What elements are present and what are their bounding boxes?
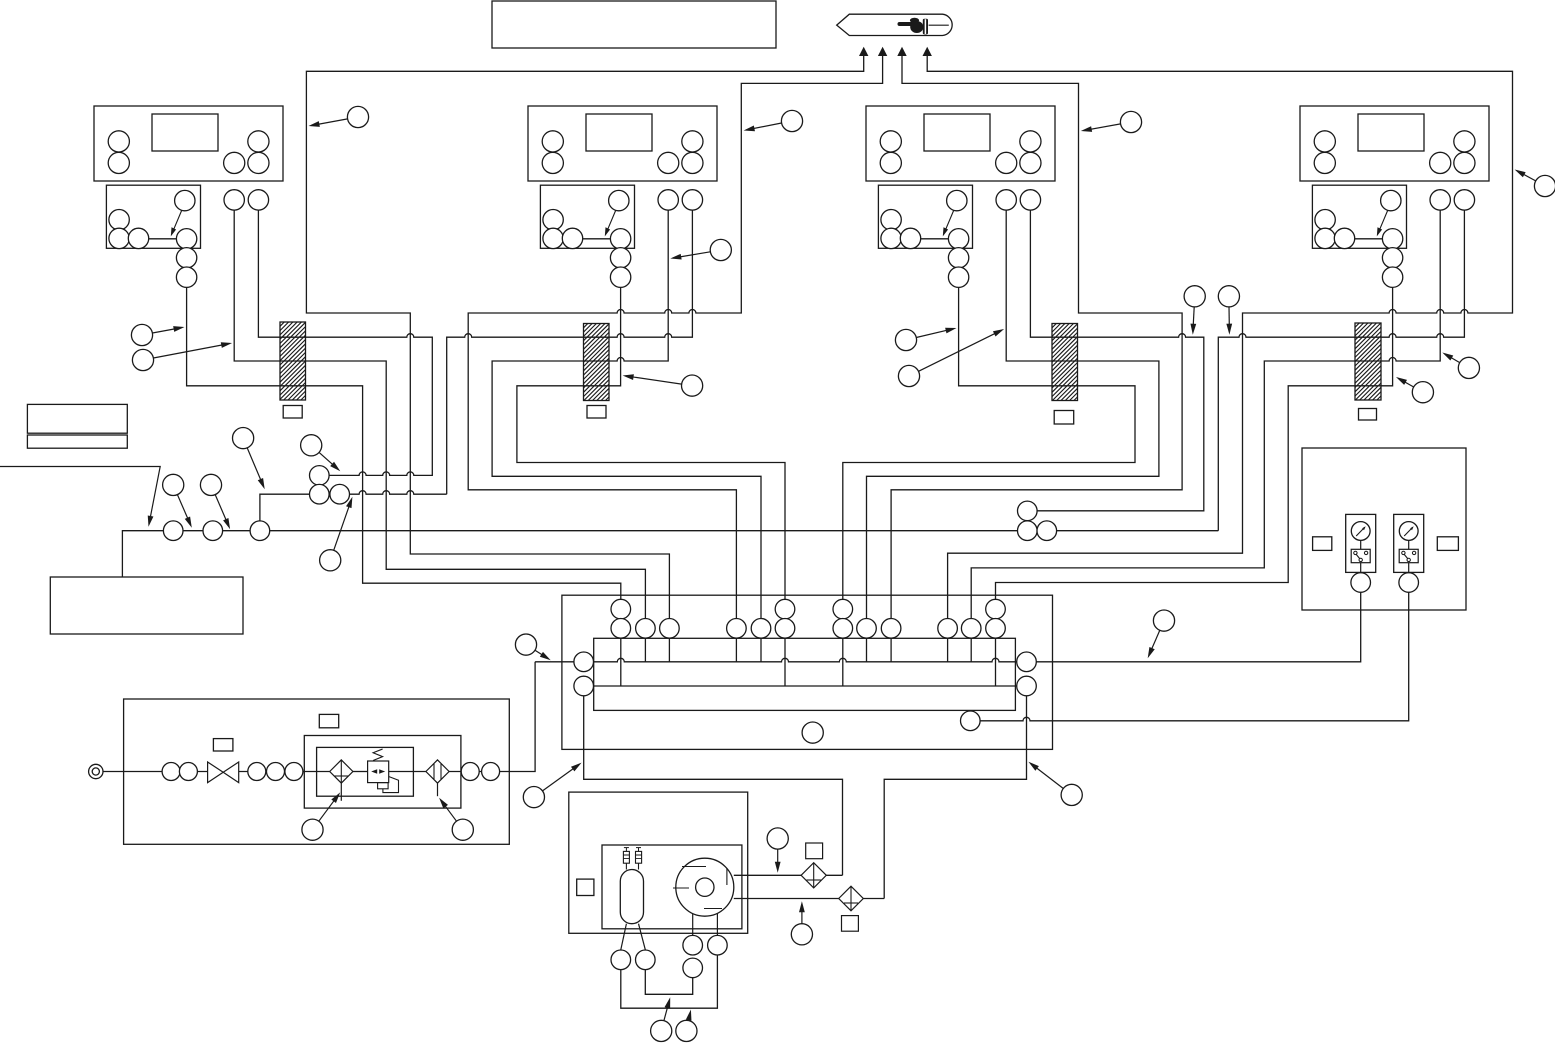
manifold port circles: [611, 599, 631, 619]
callout 20 to air bus entry: [535, 650, 548, 658]
bottle check valve left: [623, 851, 629, 863]
pump vane ticks: [673, 867, 727, 909]
bottom loop outer: [621, 955, 718, 1008]
air filter-regulator inner box: [317, 747, 414, 796]
control head unit 4: [1300, 106, 1489, 287]
air supply pipe segment 1: [103, 771, 208, 773]
control head unit 1: [94, 106, 283, 287]
central distribution inner manifold: [594, 638, 1016, 710]
up arrow 3: [897, 47, 906, 56]
bus A drop 866.5: [866, 638, 868, 662]
gauge box label rect left: [1313, 537, 1332, 551]
callout 11 to water line u3: [1193, 307, 1194, 332]
air supply label rect B: [319, 714, 338, 727]
bulkhead square S3: [1054, 411, 1074, 425]
pump outlet line 2: [734, 898, 839, 900]
callout 1 to bus1: [312, 119, 348, 126]
pressure regulator: [368, 761, 389, 783]
bus A drop 736.4: [735, 638, 737, 662]
pump drop left pair: [692, 914, 694, 936]
callout 22 to bus B right riser: [1031, 764, 1064, 789]
bus A drop 891.1: [890, 638, 892, 662]
water main pipe: [122, 531, 1218, 577]
callout 15 to water main a: [177, 495, 190, 525]
bulkhead square S2: [587, 406, 606, 419]
callout 8 to unit3 mid: [919, 330, 1002, 371]
callout 12 to water line u4: [1228, 307, 1230, 332]
gauge/shutoff box: [1302, 448, 1466, 610]
air supply line fitting circles: [162, 763, 180, 781]
central distribution box: [562, 595, 1053, 749]
distribution fitting circles: [574, 652, 594, 672]
manual shutoff valve (bowtie): [208, 762, 239, 783]
bus B left riser to pump outlet 1: [584, 696, 843, 876]
junction cluster circles left: [310, 466, 330, 486]
floating callout circle in distribution box: [802, 722, 823, 743]
wire bus1 unit1 pilot line: [306, 54, 863, 619]
air filter-regulator mid box: [304, 736, 461, 809]
wire unit1 chain line: [187, 287, 621, 599]
callout 18 to junction line a: [319, 452, 338, 469]
leader line from off-page text to water line: [0, 467, 160, 522]
check valve diamond D1: [801, 863, 826, 888]
callout 16 to water main b: [215, 495, 229, 527]
callout 23 to air bus A: [1149, 630, 1160, 655]
pump inner circle: [696, 878, 714, 896]
callout 17 to water branch elbow: [247, 448, 263, 487]
wire unit2 chain line: [517, 287, 785, 599]
bus A drop 645.4: [644, 638, 646, 662]
bus A drop 761: [760, 638, 762, 662]
legend box (empty title block): [492, 1, 776, 48]
wire unit4 chain line: [996, 287, 1393, 599]
callout 4 to bus4: [1517, 171, 1536, 181]
bulkhead hatch H1: [280, 322, 306, 400]
callout 7 to unit3 chain: [916, 329, 953, 338]
callout 29 to bottom loop outer: [689, 1012, 691, 1020]
pump/bottle outlet circles: [611, 950, 631, 970]
air supply pipe segment 4: [389, 771, 426, 773]
pump outlet line 1: [734, 874, 801, 876]
bottom loop inner: [645, 970, 692, 995]
bottle outlet right: [639, 924, 646, 950]
water stub line right cluster: [1027, 510, 1204, 512]
wire bus3 unit3 pilot line: [891, 54, 1182, 619]
syringe water line to gauge 2: [980, 593, 1409, 721]
air supply pipe segment 2: [239, 771, 330, 773]
regulator relief passage: [383, 777, 399, 793]
pump assembly label square: [577, 879, 594, 895]
pointing hand glyph: [898, 18, 929, 35]
water bus B: [584, 685, 1027, 687]
air supply pipe segment 5 and riser to bus A: [449, 662, 535, 772]
check valve D2 label square: [842, 916, 859, 932]
wire unit2 mid line: [492, 210, 761, 618]
wire unit1 mid line: [234, 210, 645, 618]
bulkhead hatch H2: [584, 324, 610, 401]
callout 28 to bottom loop inner: [664, 1000, 670, 1021]
wire unit2 right (water) line: [447, 210, 693, 494]
gauge shutoff assembly 2: [1394, 514, 1424, 592]
wire unit4 mid line: [971, 210, 1440, 618]
junction box label rects (left): [27, 404, 127, 433]
bus B drop 620.8: [620, 638, 622, 686]
bus A drop 971.2: [970, 638, 972, 662]
callout 10 to bulkhead H2: [626, 376, 682, 384]
water supply source box (bottom left): [50, 577, 243, 634]
air supply label rect A: [213, 739, 233, 751]
callout 21 to bus B left riser: [543, 764, 580, 791]
wire bus2 unit2 pilot line: [468, 54, 882, 619]
callout 27 to pump outlet 2: [801, 904, 803, 924]
callout 9 to unit2 wire: [673, 252, 710, 258]
up arrow 1: [859, 47, 868, 56]
bus B right riser to pump outlet 2: [884, 696, 1026, 899]
regulator drain rect: [378, 783, 389, 789]
water bottle/pump inner box: [602, 845, 742, 929]
bulkhead hatch H3: [1052, 324, 1078, 401]
bus A drop 947.6: [947, 638, 949, 662]
bottle outlet left: [621, 924, 627, 950]
bus B drop 995.5: [995, 638, 997, 686]
bottle check valve right: [636, 851, 642, 863]
callout 26 to pump outlet 1: [777, 849, 779, 870]
callout 25 to filter F2: [441, 800, 457, 821]
bulkhead square S4: [1359, 409, 1377, 421]
air bus A across distribution box to gauge 1: [535, 593, 1361, 662]
bus B drop 785: [784, 638, 786, 686]
wire unit4 right (water) line: [1218, 210, 1464, 530]
water branch riser to units 1/2: [260, 491, 447, 531]
air inlet double circle: [89, 764, 103, 778]
callout 2 to bus2: [747, 123, 782, 130]
air filter F1 drain stem: [340, 783, 342, 801]
callout 6 to unit1 mid: [153, 344, 229, 358]
wire unit3 chain line: [843, 287, 1135, 599]
control head unit 2: [528, 106, 717, 287]
callout 14 to unit4 chain wire: [1399, 379, 1414, 388]
air filter diamond F1: [330, 760, 353, 783]
wire bus4 unit4 pilot line: [927, 54, 1512, 619]
air supply assembly box: [124, 699, 510, 844]
wire unit1 right (water) line: [258, 210, 432, 475]
callout 24 to filter F1: [319, 795, 339, 821]
water main fitting circles: [163, 521, 183, 541]
junction cluster circles right: [1018, 501, 1038, 521]
bus A drop 669.4: [668, 638, 670, 662]
callout 3 to bus3: [1084, 124, 1121, 131]
check valve diamond D2: [839, 886, 864, 911]
bulkhead square S1: [283, 406, 302, 419]
pump drop right: [716, 914, 718, 936]
gauge box label rect right: [1437, 537, 1458, 551]
air filter diamond F2: [426, 760, 449, 783]
bottle check valve stems: [625, 863, 627, 869]
banner pointer line: [929, 24, 949, 26]
callout 13 to unit4 mid wire: [1445, 354, 1460, 363]
up arrow 4: [923, 47, 932, 56]
bulkhead hatch H4: [1355, 323, 1381, 400]
bus B drop 842.8: [842, 638, 844, 686]
water bottle capsule: [620, 870, 643, 924]
up arrow 2: [878, 47, 887, 56]
wire unit3 right (water) line: [1027, 210, 1204, 511]
water bottle/pump assembly box: [569, 792, 748, 933]
callout 19 to junction line b: [334, 500, 352, 551]
gauge shutoff assembly 1: [1346, 514, 1376, 592]
wire unit3 mid line: [867, 210, 1159, 618]
air supply pipe segment 3: [353, 771, 368, 773]
air filter F2 drain stem: [437, 783, 439, 796]
callout 5 to unit1 chain: [152, 328, 181, 333]
pointing-hand banner: [837, 14, 952, 35]
pump body circle: [676, 858, 734, 916]
control head unit 3: [866, 106, 1055, 287]
check valve D1 label square: [806, 843, 823, 859]
